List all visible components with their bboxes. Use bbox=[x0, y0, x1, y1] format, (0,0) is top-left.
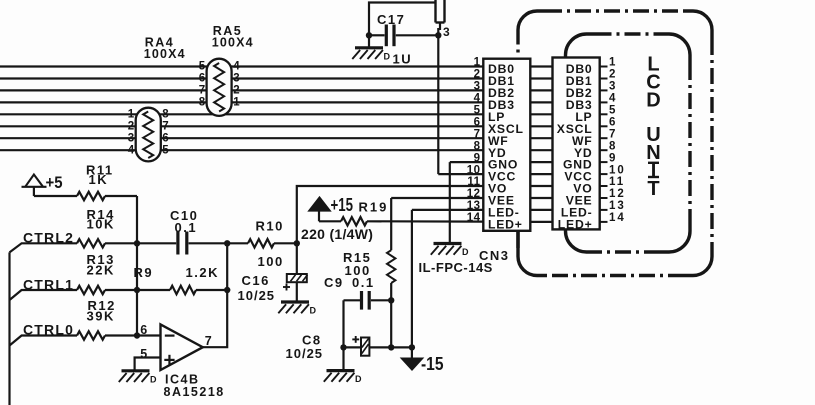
wire CN3 pin 8 to LCD pin 8 bbox=[530, 149, 552, 151]
wire op-amp pin 5 to ground bbox=[135, 358, 161, 370]
wire R14 to C10 bbox=[105, 242, 176, 244]
wire CN3 pin 10 to LCD pin 10 bbox=[530, 173, 552, 175]
ground at C8 bbox=[342, 347, 344, 369]
svg-text:3: 3 bbox=[128, 132, 134, 144]
svg-text:8: 8 bbox=[199, 97, 206, 109]
svg-text:D: D bbox=[355, 374, 362, 384]
LCD pin 1 stub bbox=[600, 66, 608, 68]
wire CTRL2 entry bbox=[10, 243, 78, 252]
LCD pin 3 stub bbox=[600, 89, 608, 91]
wire left edge bus bbox=[8, 252, 10, 405]
svg-text:1: 1 bbox=[609, 57, 617, 69]
junction dot -15 column bbox=[409, 344, 415, 350]
LCD pin 14 stub bbox=[600, 221, 608, 223]
resistor R15 bbox=[387, 250, 395, 283]
wire bus DB3 to CN3 pin 4 bbox=[0, 101, 483, 103]
svg-text:100X4: 100X4 bbox=[212, 35, 254, 49]
svg-text:3: 3 bbox=[443, 25, 450, 39]
wire R11 to node column bbox=[105, 195, 137, 197]
LCD pin 5 stub bbox=[600, 113, 608, 115]
svg-text:8: 8 bbox=[162, 109, 169, 121]
LCD pin 12 stub bbox=[600, 197, 608, 199]
svg-text:5: 5 bbox=[162, 144, 169, 156]
svg-text:7: 7 bbox=[199, 85, 205, 97]
svg-text:1U: 1U bbox=[393, 52, 413, 67]
wire CTRL1 entry bbox=[10, 290, 78, 300]
svg-text:22K: 22K bbox=[87, 263, 115, 278]
svg-text:3: 3 bbox=[609, 81, 617, 93]
svg-text:T: T bbox=[647, 178, 659, 200]
wire CN3 pin 6 to LCD pin 6 bbox=[530, 125, 552, 127]
LCD pin 4 stub bbox=[600, 101, 608, 103]
capacitor C17 bbox=[369, 34, 385, 36]
svg-text:9: 9 bbox=[474, 152, 481, 164]
junction dot B-mid bbox=[224, 287, 230, 293]
junction dot C8 left bbox=[340, 344, 346, 350]
svg-text:3: 3 bbox=[233, 73, 239, 85]
svg-text:5: 5 bbox=[199, 61, 206, 73]
svg-text:6: 6 bbox=[199, 73, 205, 85]
resistor R11 bbox=[77, 192, 105, 200]
wire CTRL0 entry bbox=[10, 336, 78, 346]
plus sign C8 bbox=[352, 338, 359, 340]
svg-text:13: 13 bbox=[467, 200, 481, 212]
svg-text:100X4: 100X4 bbox=[144, 47, 186, 61]
svg-text:4: 4 bbox=[128, 144, 135, 156]
LCD pin 13 stub bbox=[600, 209, 608, 211]
svg-text:D: D bbox=[646, 90, 660, 112]
svg-text:IL-FPC-14S: IL-FPC-14S bbox=[419, 260, 493, 275]
wire bus LP to CN3 pin 5 bbox=[0, 113, 483, 115]
node C17 left bbox=[366, 32, 372, 38]
svg-text:2: 2 bbox=[233, 85, 239, 97]
wire bus DB1 to CN3 pin 2 bbox=[0, 77, 483, 79]
svg-text:6: 6 bbox=[140, 323, 147, 337]
wire C9 node to C8 row bbox=[390, 300, 392, 347]
svg-text:1: 1 bbox=[474, 57, 481, 69]
wire CN3 pin 9 to LCD pin 9 bbox=[530, 161, 552, 163]
svg-text:C9: C9 bbox=[324, 275, 344, 290]
svg-text:LED+: LED+ bbox=[558, 218, 593, 232]
svg-text:14: 14 bbox=[467, 212, 481, 224]
LCD pin 11 stub bbox=[600, 185, 608, 187]
resistor array RA4 bbox=[136, 108, 161, 162]
junction dot B-top bbox=[224, 240, 230, 246]
svg-text:11: 11 bbox=[609, 176, 625, 188]
LCD pin 2 stub bbox=[600, 78, 608, 80]
svg-text:1: 1 bbox=[128, 109, 135, 121]
junction dot A-CTRL0 bbox=[134, 332, 140, 338]
svg-text:7: 7 bbox=[162, 121, 168, 133]
wire CN3 pin 14 to LCD pin 14 bbox=[530, 221, 552, 223]
connector pin 3 (cut off at top) bbox=[434, 0, 436, 23]
power +15 bbox=[308, 197, 330, 211]
svg-text:220 (1/4W): 220 (1/4W) bbox=[301, 226, 373, 242]
capacitor C16 electrolytic bbox=[296, 243, 298, 274]
svg-text:R19: R19 bbox=[359, 200, 389, 215]
ground at op-amp pin 5 bbox=[122, 369, 150, 372]
svg-text:LED+: LED+ bbox=[488, 218, 523, 232]
wire node column A bbox=[136, 196, 138, 336]
svg-text:C16: C16 bbox=[242, 273, 270, 288]
svg-text:4: 4 bbox=[233, 61, 240, 73]
plus sign C16 bbox=[283, 286, 290, 288]
svg-text:6: 6 bbox=[609, 117, 617, 129]
wire GND pin 9 bbox=[450, 161, 484, 163]
LCD pin 9 stub bbox=[600, 161, 608, 163]
node C17 right bbox=[435, 32, 441, 38]
svg-text:D: D bbox=[462, 247, 469, 257]
svg-text:7: 7 bbox=[474, 128, 481, 140]
ground at CN3 pin 9 bbox=[434, 242, 462, 245]
svg-text:5: 5 bbox=[609, 105, 617, 117]
svg-text:2: 2 bbox=[128, 121, 134, 133]
wire VCC column to pin 10 bbox=[437, 35, 439, 174]
svg-text:5: 5 bbox=[474, 105, 481, 117]
svg-text:2: 2 bbox=[609, 69, 617, 81]
svg-text:12: 12 bbox=[609, 188, 626, 200]
LCD pin 6 stub bbox=[600, 125, 608, 127]
svg-text:10: 10 bbox=[467, 164, 481, 176]
svg-text:9: 9 bbox=[609, 152, 617, 164]
power +5 bbox=[22, 186, 47, 188]
junction dot C8 right bbox=[388, 344, 394, 350]
svg-text:1: 1 bbox=[233, 97, 240, 109]
wire R12 to op-amp pin 6 bbox=[105, 334, 161, 336]
wire R13 to R9 bbox=[105, 289, 170, 291]
wire CN3 pin 12 to LCD pin 12 bbox=[530, 197, 552, 199]
wire bus WF to CN3 pin 7 bbox=[0, 137, 483, 139]
ground near C17 bbox=[368, 35, 370, 47]
LCD unit outer dashed boundary bbox=[518, 11, 546, 39]
wire CN3 pin 1 to LCD pin 1 bbox=[530, 65, 552, 67]
svg-text:+15: +15 bbox=[331, 195, 354, 215]
svg-text:12: 12 bbox=[467, 188, 481, 200]
svg-text:6: 6 bbox=[474, 117, 481, 129]
svg-text:100: 100 bbox=[258, 254, 284, 269]
capacitor C8 electrolytic bbox=[344, 346, 362, 348]
svg-text:D: D bbox=[310, 306, 317, 316]
svg-text:8: 8 bbox=[609, 140, 617, 152]
connector LCD body bbox=[553, 58, 600, 230]
svg-text:8A15218: 8A15218 bbox=[164, 385, 225, 399]
junction dot A-CTRL1 bbox=[134, 287, 140, 293]
svg-text:5: 5 bbox=[140, 347, 147, 361]
svg-text:4: 4 bbox=[609, 93, 617, 105]
svg-text:10/25: 10/25 bbox=[286, 346, 324, 361]
wire CN3 pin 5 to LCD pin 5 bbox=[530, 113, 552, 115]
resistor R12 bbox=[77, 331, 105, 339]
connector CN3 body bbox=[483, 59, 530, 231]
svg-text:4: 4 bbox=[474, 93, 481, 105]
wire CN3 pin 4 to LCD pin 4 bbox=[530, 101, 552, 103]
svg-text:0.1: 0.1 bbox=[175, 220, 198, 235]
svg-text:10: 10 bbox=[609, 164, 626, 176]
wire bus YD to CN3 pin 8 bbox=[0, 149, 483, 151]
capacitor C10 bbox=[176, 232, 179, 255]
svg-text:10/25: 10/25 bbox=[238, 288, 276, 303]
svg-text:R9: R9 bbox=[134, 265, 154, 280]
resistor R13 bbox=[77, 286, 105, 294]
svg-text:-15: -15 bbox=[421, 354, 444, 374]
wire CN3 pin 13 to LCD pin 13 bbox=[530, 209, 552, 211]
svg-text:C17: C17 bbox=[377, 12, 405, 27]
svg-text:+5: +5 bbox=[46, 173, 63, 192]
wire +5 to R11 bbox=[33, 187, 35, 196]
resistor R14 bbox=[77, 239, 105, 247]
svg-text:R10: R10 bbox=[256, 219, 284, 234]
wire +15 stem bbox=[318, 211, 320, 221]
capacitor C9 bbox=[344, 299, 361, 301]
op-amp U IC4B bbox=[161, 324, 203, 370]
wire bus DB0 to CN3 pin 1 bbox=[0, 65, 483, 67]
wire CN3 pin 2 to LCD pin 2 bbox=[530, 77, 552, 79]
junction dot C-top bbox=[294, 240, 300, 246]
wire R15 to C9 node bbox=[390, 283, 392, 300]
wire op-amp output bbox=[203, 243, 227, 347]
LCD unit inner dashed boundary bbox=[566, 34, 596, 64]
resistor R19 bbox=[319, 220, 341, 222]
svg-text:D: D bbox=[384, 51, 391, 61]
svg-text:0.1: 0.1 bbox=[352, 275, 375, 290]
wire R19 to CN3 pin 14 LED+ bbox=[367, 220, 483, 223]
svg-text:1.2K: 1.2K bbox=[186, 265, 219, 280]
junction dot A-CTRL2 bbox=[134, 240, 140, 246]
power -15 bbox=[401, 358, 423, 370]
LCD pin 10 stub bbox=[600, 173, 608, 175]
resistor R9 bbox=[170, 286, 196, 294]
svg-text:11: 11 bbox=[467, 176, 480, 188]
wire CN3 pin 3 to LCD pin 3 bbox=[530, 89, 552, 91]
svg-text:2: 2 bbox=[474, 69, 481, 81]
wire pin3 stem bbox=[439, 23, 441, 31]
svg-text:1K: 1K bbox=[89, 172, 109, 187]
svg-text:7: 7 bbox=[609, 128, 617, 140]
LCD pin 7 stub bbox=[600, 137, 608, 139]
svg-text:39K: 39K bbox=[87, 308, 115, 323]
resistor R10 bbox=[227, 242, 248, 244]
LCD pin 8 stub bbox=[600, 149, 608, 151]
svg-text:6: 6 bbox=[162, 132, 168, 144]
wire C17 top loop bbox=[369, 3, 436, 36]
wire VEE from CN3 pin 12 bbox=[391, 197, 483, 199]
svg-text:13: 13 bbox=[609, 200, 626, 212]
wire CN3 pin 11 to LCD pin 11 bbox=[530, 185, 552, 187]
svg-text:D: D bbox=[150, 374, 157, 384]
svg-text:10K: 10K bbox=[87, 217, 115, 232]
junction dot R15/C9 bbox=[388, 297, 394, 303]
wire CN3 pin 7 to LCD pin 7 bbox=[530, 137, 552, 139]
wire bus XSCL to CN3 pin 6 bbox=[0, 125, 483, 127]
ground at C16 bbox=[281, 300, 309, 303]
svg-text:14: 14 bbox=[609, 212, 626, 224]
resistor array RA5 bbox=[207, 59, 232, 116]
wire bus DB2 to CN3 pin 3 bbox=[0, 89, 483, 91]
wire VO to CN3 pin 11 bbox=[297, 186, 484, 243]
svg-text:3: 3 bbox=[474, 81, 481, 93]
wire LED- from CN3 pin 13 to -15 bbox=[412, 209, 483, 211]
svg-text:8: 8 bbox=[474, 140, 481, 152]
wire C9 left column bbox=[342, 300, 344, 347]
